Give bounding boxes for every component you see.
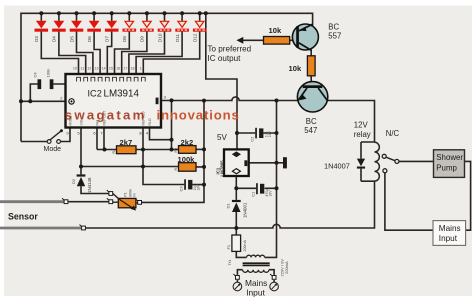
svg-text:Input: Input: [439, 234, 458, 243]
svg-text:D11: D11: [175, 33, 180, 42]
svg-text:RLO: RLO: [148, 118, 152, 125]
svg-text:13: 13: [95, 67, 99, 71]
svg-text:16V: 16V: [269, 190, 273, 197]
svg-text:D7: D7: [105, 36, 110, 42]
svg-text:18: 18: [131, 67, 135, 71]
svg-text:Tr1: Tr1: [227, 259, 232, 266]
svg-text:Mode: Mode: [44, 146, 62, 153]
svg-text:15: 15: [109, 67, 113, 71]
svg-text:2k7: 2k7: [120, 138, 133, 147]
svg-text:100k: 100k: [178, 155, 196, 164]
svg-text:Shower: Shower: [436, 153, 463, 162]
svg-text:D12: D12: [193, 33, 198, 42]
svg-text:1N4148: 1N4148: [87, 177, 92, 193]
svg-text:10k: 10k: [289, 64, 302, 73]
svg-text:C1: C1: [251, 191, 256, 197]
svg-text:D5: D5: [69, 36, 74, 42]
svg-text:1N4007: 1N4007: [324, 161, 350, 170]
svg-text:C4: C4: [32, 72, 37, 78]
svg-text:Sensor: Sensor: [8, 212, 38, 222]
svg-text:D9: D9: [140, 36, 145, 42]
svg-text:D4: D4: [52, 36, 57, 42]
svg-text:D1: D1: [225, 203, 230, 209]
svg-text:D8: D8: [122, 36, 127, 42]
svg-text:14: 14: [102, 67, 106, 71]
svg-text:F1: F1: [226, 244, 231, 249]
svg-text:P1: P1: [124, 192, 128, 196]
svg-text:D10: D10: [157, 33, 162, 42]
svg-text:557: 557: [328, 31, 341, 40]
svg-text:10k: 10k: [269, 26, 282, 35]
svg-text:relay: relay: [354, 130, 371, 139]
svg-text:D3: D3: [34, 36, 39, 42]
svg-text:D6: D6: [87, 36, 92, 42]
svg-text:12V: 12V: [354, 120, 369, 129]
svg-text:Pump: Pump: [436, 163, 457, 172]
svg-text:16: 16: [116, 67, 120, 71]
svg-text:C2: C2: [250, 136, 255, 142]
svg-text:10: 10: [73, 67, 77, 71]
svg-text:5V: 5V: [217, 133, 227, 142]
svg-text:N/C: N/C: [386, 129, 400, 138]
svg-text:lin: lin: [133, 193, 137, 197]
svg-text:16V: 16V: [197, 184, 201, 191]
svg-text:R1: R1: [174, 166, 178, 171]
svg-text:IC2: IC2: [88, 88, 102, 98]
svg-text:IC output: IC output: [208, 54, 242, 63]
svg-text:innovations: innovations: [157, 107, 239, 122]
svg-text:LM3914: LM3914: [104, 88, 140, 99]
svg-text:11: 11: [80, 67, 84, 71]
svg-text:Mains: Mains: [439, 224, 461, 233]
svg-text:C3: C3: [179, 186, 184, 192]
svg-text:200mA: 200mA: [284, 261, 289, 274]
svg-text:LM7805: LM7805: [220, 160, 225, 177]
svg-text:17: 17: [123, 67, 127, 71]
svg-text:R3: R3: [174, 148, 178, 153]
svg-text:1N4001: 1N4001: [243, 202, 248, 218]
svg-text:BC: BC: [306, 117, 317, 126]
svg-text:D2: D2: [71, 178, 76, 184]
svg-text:R2: R2: [112, 149, 116, 154]
svg-text:1: 1: [140, 67, 142, 71]
svg-text:547: 547: [304, 126, 317, 135]
svg-text:200mA: 200mA: [243, 240, 247, 252]
svg-text:Input: Input: [246, 288, 265, 298]
svg-text:100n: 100n: [45, 69, 50, 78]
svg-text:2k2: 2k2: [181, 138, 194, 147]
svg-text:To preferred: To preferred: [208, 45, 252, 54]
svg-text:12: 12: [87, 67, 91, 71]
svg-text:16V: 16V: [268, 131, 272, 138]
svg-text:BC: BC: [328, 22, 339, 31]
